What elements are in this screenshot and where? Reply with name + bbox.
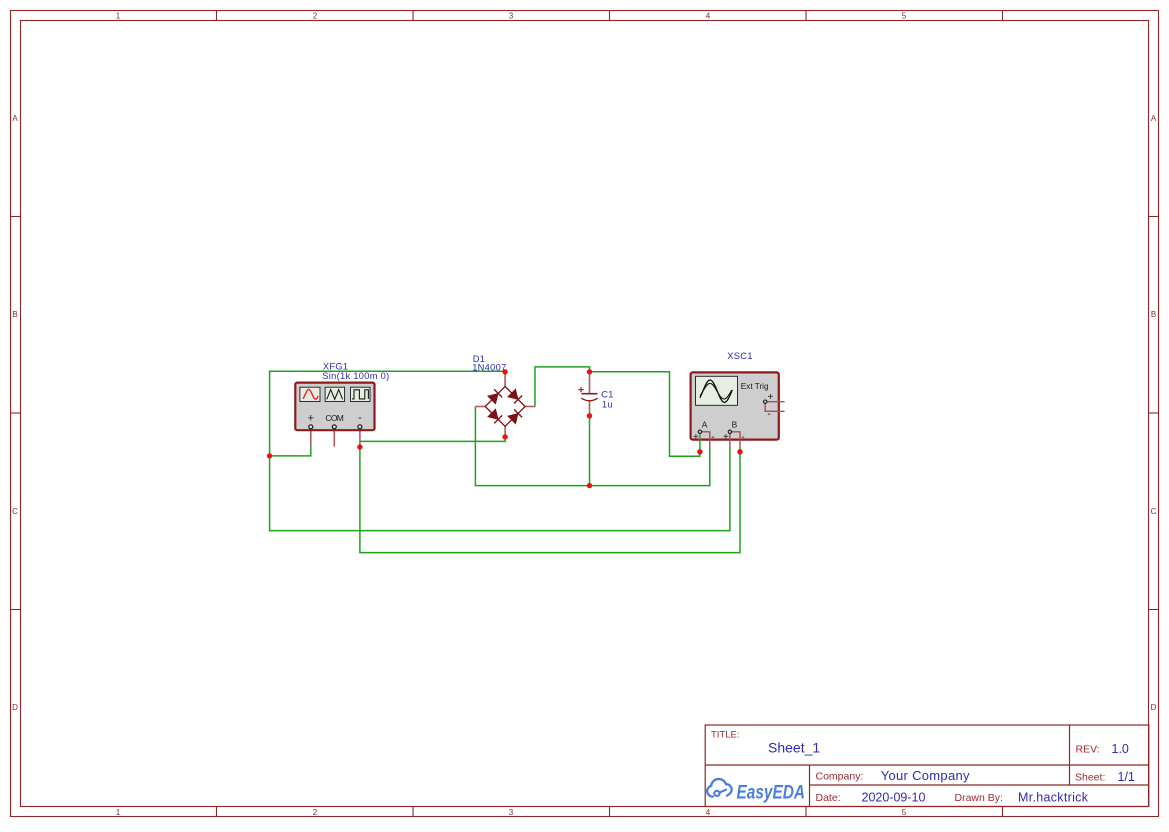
svg-text:B: B	[732, 419, 738, 429]
D1 diode upper-right cathode bar	[514, 396, 522, 404]
D1 diode lower-right cathode bar	[514, 409, 522, 417]
wire XSC1 A+ pin stub	[699, 441, 701, 452]
C1 curved plate	[581, 398, 597, 401]
C1 top pin stub	[589, 374, 591, 394]
svg-text:Sin(1k 100m 0): Sin(1k 100m 0)	[322, 371, 389, 381]
svg-text:Ext Trig: Ext Trig	[741, 382, 769, 391]
svg-text:Sheet_1: Sheet_1	[768, 740, 820, 756]
svg-text:4: 4	[706, 12, 711, 21]
svg-text:EasyEDA: EasyEDA	[737, 782, 806, 804]
wire XFG1 - to D1 bottom	[360, 436, 505, 441]
junction node at XSC1 A+	[697, 449, 702, 454]
wire XFG1 - to XSC1 B- via bottom rail	[360, 441, 740, 553]
XSC1 ext trig pin bracket	[765, 402, 784, 412]
svg-text:5: 5	[902, 808, 907, 817]
oscilloscope XSC1	[691, 351, 785, 448]
XSC1 screen wave outer	[700, 380, 732, 402]
svg-text:2: 2	[313, 808, 318, 817]
C1 plus sign	[578, 387, 583, 392]
svg-text:3: 3	[509, 12, 514, 21]
C1 top plate	[582, 393, 598, 395]
XSC1 B+ pin stub	[729, 434, 731, 449]
svg-text:-: -	[741, 432, 744, 443]
junction node at D1 top	[502, 369, 507, 374]
XSC1 A- pin path	[702, 432, 710, 448]
XSC1 ext trig pin circle	[764, 400, 767, 403]
junction node at left rail	[267, 453, 272, 458]
function generator XFG1	[295, 361, 389, 446]
XFG1 sine button	[300, 387, 320, 401]
XSC1 screen	[696, 376, 738, 405]
svg-text:1: 1	[116, 808, 121, 817]
wire C1 top to XSC1 A+	[590, 372, 700, 456]
XFG1 triangle button	[325, 387, 345, 401]
XFG1 pin stub -	[359, 430, 361, 442]
svg-text:1/1: 1/1	[1118, 770, 1135, 784]
D1 diamond outline	[485, 386, 525, 426]
XSC1 body	[691, 372, 779, 439]
title block	[705, 725, 1149, 807]
svg-text:2020-09-10: 2020-09-10	[862, 791, 926, 805]
svg-text:B: B	[1151, 310, 1156, 319]
svg-text:B: B	[12, 310, 17, 319]
svg-text:REV:: REV:	[1076, 744, 1100, 756]
svg-text:1u: 1u	[602, 400, 613, 410]
svg-text:Drawn By:: Drawn By:	[955, 792, 1003, 804]
svg-text:A: A	[12, 114, 18, 123]
svg-text:A: A	[1151, 114, 1157, 123]
XFG1 pin circle -	[358, 425, 362, 429]
svg-text:D: D	[12, 703, 18, 712]
svg-text:3: 3	[509, 808, 514, 817]
wire node left rail down and bottom to XSC1 B+	[270, 448, 730, 531]
svg-text:C: C	[1151, 507, 1157, 516]
diode bridge D1	[472, 354, 535, 436]
junction node at C1 top	[587, 369, 592, 374]
svg-text:D: D	[1151, 703, 1157, 712]
svg-text:4: 4	[706, 808, 711, 817]
XSC1 A+ pin stub	[699, 434, 701, 442]
D1 diode lower-left triangle	[488, 409, 499, 420]
svg-text:Mr.hacktrick: Mr.hacktrick	[1018, 791, 1089, 805]
D1 right pin stub	[525, 406, 535, 408]
junction node at XSC1 B-	[737, 449, 742, 454]
svg-text:+: +	[308, 413, 314, 425]
junction dots	[267, 369, 743, 488]
svg-text:Company:: Company:	[816, 771, 864, 783]
EasyEDA logo	[707, 779, 805, 804]
capacitor C1	[578, 374, 613, 416]
wire D1 right to C1 top	[535, 367, 590, 407]
XFG1 pin circle +	[309, 425, 313, 429]
XSC1 A+ pin circle	[698, 430, 701, 433]
wire C1 bottom down	[589, 416, 591, 486]
svg-text:2: 2	[313, 12, 318, 21]
svg-text:5: 5	[902, 12, 907, 21]
XFG1 pin circle COM	[332, 425, 336, 429]
XFG1 pin stub COM	[333, 430, 335, 447]
svg-text:C1: C1	[601, 390, 613, 400]
D1 diode upper-left cathode bar	[494, 389, 502, 397]
XSC1 B- pin path	[732, 432, 741, 448]
svg-text:COM: COM	[325, 413, 343, 423]
XSC1 screen wave inner	[700, 383, 732, 399]
svg-text:Sheet:: Sheet:	[1075, 772, 1105, 784]
D1 diode lower-left cathode bar	[494, 415, 502, 423]
junction node at XFG1 minus	[357, 444, 362, 449]
XFG1 sine icon	[303, 389, 318, 399]
D1 top pin stub	[504, 373, 506, 387]
svg-text:1N4007: 1N4007	[472, 362, 506, 372]
wire D1 left to bottom rail to XSC1 A-	[475, 407, 709, 486]
svg-text:-: -	[711, 432, 714, 443]
svg-text:+: +	[693, 432, 699, 443]
D1 diode lower-right triangle	[508, 413, 518, 424]
svg-text:TITLE:: TITLE:	[711, 730, 740, 741]
svg-text:-: -	[358, 412, 362, 424]
XFG1 triangle icon	[327, 390, 343, 400]
junction node at D1 bottom	[502, 434, 507, 439]
XFG1 pin stub +	[310, 430, 312, 445]
wire net1: XFG1 + to D1 top	[270, 367, 740, 553]
junction node bottom rail at C1	[587, 483, 592, 488]
svg-text:1.0: 1.0	[1112, 742, 1129, 756]
svg-text:1: 1	[116, 12, 121, 21]
XFG1 body	[295, 383, 374, 431]
XSC1 B+ pin circle	[728, 430, 731, 433]
D1 left pin stub	[475, 406, 485, 408]
svg-text:+: +	[723, 432, 729, 443]
XFG1 square icon	[352, 390, 368, 399]
C1 bottom pin stub	[589, 400, 591, 415]
svg-text:Date:: Date:	[816, 792, 841, 804]
svg-text:C: C	[12, 507, 18, 516]
D1 bottom pin stub	[504, 426, 506, 436]
wire XFG1 + pin down to node	[270, 445, 311, 456]
D1 diode upper-left triangle	[488, 393, 499, 404]
svg-text:XSC1: XSC1	[727, 351, 753, 361]
D1 diode upper-right triangle	[508, 389, 518, 400]
svg-text:Your Company: Your Company	[881, 768, 970, 783]
junction node at C1 bottom	[587, 413, 592, 418]
svg-text:A: A	[702, 419, 708, 429]
XFG1 square button	[351, 387, 371, 401]
